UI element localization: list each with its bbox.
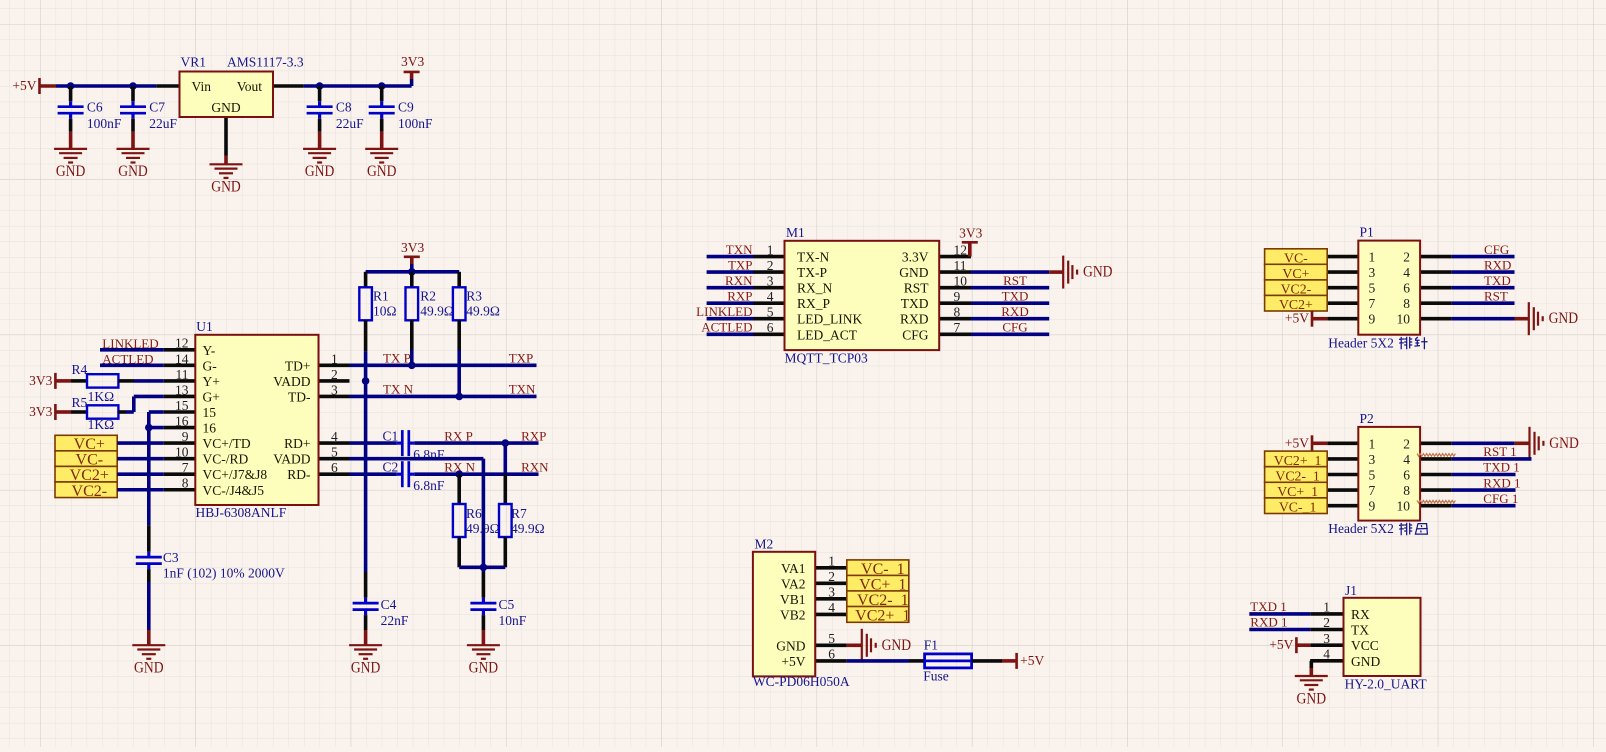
svg-text:6: 6 [331, 460, 338, 475]
svg-text:RXD 1: RXD 1 [1483, 475, 1520, 490]
svg-text:10: 10 [954, 273, 968, 288]
wire M2 +5V to fuse [847, 659, 909, 663]
svg-text:TXN: TXN [726, 242, 753, 257]
svg-text:RXN: RXN [521, 459, 549, 474]
wire [1452, 255, 1515, 259]
svg-text:7: 7 [1369, 483, 1376, 498]
svg-text:RX: RX [1351, 607, 1370, 622]
svg-text:RST: RST [1003, 273, 1027, 288]
svg-text:TXP: TXP [728, 257, 753, 272]
svg-text:3: 3 [767, 273, 774, 288]
svg-text:8: 8 [1403, 296, 1410, 311]
junction [408, 362, 416, 370]
power 3V3 output [410, 79, 414, 86]
svg-text:TX-P: TX-P [797, 265, 827, 280]
wire [707, 270, 754, 274]
svg-text:ACTLED: ACTLED [701, 320, 752, 335]
ground below C9 [380, 119, 384, 132]
svg-text:12: 12 [175, 336, 189, 351]
svg-text:11: 11 [954, 258, 967, 273]
svg-text:4: 4 [1323, 647, 1330, 662]
svg-text:GND: GND [118, 163, 148, 180]
junction [316, 82, 324, 90]
svg-text:49.9Ω: 49.9Ω [420, 304, 454, 319]
junction [502, 439, 510, 447]
ground below C4 [364, 615, 368, 630]
port VC2- [1265, 280, 1328, 296]
svg-text:VADD: VADD [273, 452, 311, 467]
svg-text:3: 3 [1369, 452, 1376, 467]
svg-text:TX P: TX P [383, 351, 411, 366]
svg-text:GND: GND [367, 163, 397, 180]
wire 3V3 rail [304, 84, 412, 88]
svg-text:P1: P1 [1360, 225, 1374, 240]
ground below C7 [131, 119, 135, 132]
module M2 WC-PD06H050A [815, 566, 847, 570]
svg-text:3: 3 [1323, 631, 1330, 646]
svg-text:14: 14 [175, 351, 189, 366]
svg-text:RXD 1: RXD 1 [1250, 614, 1287, 629]
svg-text:VC-/RD: VC-/RD [203, 452, 249, 467]
svg-text:6: 6 [828, 646, 835, 661]
svg-text:VC-_1: VC-_1 [1279, 500, 1317, 515]
connector J1 HY-2.0_UART [1310, 612, 1343, 616]
wire [971, 286, 1049, 290]
svg-text:VC+/J7&J8: VC+/J7&J8 [203, 467, 268, 482]
wire +5V rail [56, 84, 156, 88]
svg-text:AMS1117-3.3: AMS1117-3.3 [227, 55, 304, 70]
junction [480, 564, 488, 572]
svg-text:10: 10 [175, 445, 189, 460]
wire [1452, 270, 1515, 274]
capacitor C2 6.8nF [350, 472, 397, 476]
svg-text:GND: GND [134, 660, 164, 677]
svg-text:8: 8 [182, 476, 189, 491]
wire pin16 [149, 426, 164, 430]
svg-text:3: 3 [1369, 265, 1376, 280]
svg-text:RX P: RX P [444, 428, 473, 443]
svg-text:GND: GND [211, 179, 241, 196]
svg-text:C7: C7 [149, 100, 165, 115]
svg-text:4: 4 [828, 600, 835, 615]
resistor R3 49.9ohm [457, 272, 461, 288]
svg-text:GND: GND [469, 660, 499, 677]
port VC2+ [1265, 295, 1328, 311]
fuse F1 [909, 659, 925, 663]
svg-text:22uF: 22uF [336, 116, 364, 131]
power +5V input [38, 78, 41, 94]
svg-text:TX N: TX N [383, 382, 414, 397]
junction [408, 268, 416, 276]
svg-text:8: 8 [954, 304, 961, 319]
wire pin8 [117, 488, 164, 492]
svg-text:4: 4 [331, 429, 338, 444]
wire [707, 332, 754, 336]
svg-text:3: 3 [828, 584, 835, 599]
svg-text:C5: C5 [499, 597, 515, 612]
svg-text:5: 5 [1369, 281, 1376, 296]
wire VADD drop [350, 457, 484, 461]
svg-text:VC+_1: VC+_1 [1277, 484, 1318, 499]
svg-text:R4: R4 [72, 362, 88, 377]
capacitor C5 10nF [482, 567, 486, 572]
wire [707, 286, 754, 290]
wire [707, 255, 754, 259]
header P1 5X2 [1327, 255, 1358, 259]
svg-text:R6: R6 [466, 506, 482, 521]
wire R5 to pin13 [126, 410, 134, 414]
svg-text:GND: GND [56, 163, 86, 180]
svg-text:1KΩ: 1KΩ [88, 389, 115, 404]
svg-text:Vin: Vin [192, 79, 212, 94]
svg-text:GND: GND [351, 660, 381, 677]
svg-text:5: 5 [767, 304, 774, 319]
svg-text:TXD 1: TXD 1 [1483, 460, 1519, 475]
wire 3V3 rail to resistors [366, 270, 460, 274]
svg-text:GND: GND [1351, 654, 1380, 669]
wire [707, 301, 754, 305]
svg-text:5: 5 [331, 445, 338, 460]
svg-text:TD-: TD- [288, 389, 311, 404]
wire [1452, 457, 1532, 461]
svg-text:GND: GND [899, 265, 928, 280]
svg-text:C8: C8 [336, 100, 352, 115]
svg-text:VADD: VADD [273, 374, 311, 389]
svg-text:Vout: Vout [237, 79, 263, 94]
svg-text:1: 1 [767, 242, 774, 257]
svg-text:49.9Ω: 49.9Ω [466, 521, 500, 536]
ground at P1 pin10 [1529, 302, 1543, 335]
wire [971, 301, 1049, 305]
svg-text:2: 2 [1403, 250, 1410, 265]
svg-text:1: 1 [828, 553, 835, 568]
wire R3 to TX_N [457, 350, 461, 396]
svg-text:GND: GND [776, 638, 805, 653]
capacitor C9 100nF [380, 86, 384, 101]
svg-text:Fuse: Fuse [923, 669, 949, 684]
svg-text:R5: R5 [72, 395, 88, 410]
IC U1 HBJ-6308ANLF [164, 348, 196, 352]
port VC2+ [55, 466, 117, 482]
svg-text:1: 1 [1369, 250, 1376, 265]
svg-text:CFG: CFG [902, 327, 929, 342]
wire [971, 317, 1049, 321]
header P2 5X2 [1327, 441, 1358, 445]
svg-text:VC-/J4&J5: VC-/J4&J5 [203, 483, 265, 498]
svg-text:TXD 1: TXD 1 [1250, 599, 1286, 614]
wire [1249, 628, 1310, 632]
svg-text:6.8nF: 6.8nF [413, 478, 445, 493]
svg-text:Y+: Y+ [203, 374, 220, 389]
wire RXN [414, 472, 538, 476]
svg-text:TX: TX [1351, 623, 1369, 638]
svg-text:10: 10 [1397, 312, 1411, 327]
svg-text:Header 5X2: Header 5X2 [1328, 521, 1394, 536]
svg-text:9: 9 [1369, 312, 1376, 327]
svg-text:CFG: CFG [1002, 320, 1027, 335]
svg-text:RXP: RXP [727, 288, 752, 303]
svg-text:VC+/TD: VC+/TD [203, 436, 251, 451]
power +5V at J1 VCC [1295, 637, 1298, 653]
svg-text:2: 2 [767, 258, 774, 273]
power +5V right of fuse [1002, 659, 1017, 663]
wire P2 pin2 to GND [1452, 441, 1515, 445]
ground at M2 pin5 [847, 643, 862, 647]
erc marker pin4 [1417, 454, 1455, 457]
svg-text:7: 7 [182, 460, 189, 475]
svg-text:TX-N: TX-N [797, 250, 829, 265]
wire TXN [350, 395, 537, 399]
svg-text:MQTT_TCP03: MQTT_TCP03 [785, 350, 869, 365]
svg-text:+5V: +5V [1020, 653, 1044, 668]
wire [1452, 488, 1516, 492]
svg-text:RST: RST [904, 281, 930, 296]
svg-text:16: 16 [175, 413, 189, 428]
ground below C6 [69, 119, 73, 132]
wire [1452, 504, 1516, 508]
svg-text:LINKLED: LINKLED [696, 304, 752, 319]
svg-text:C6: C6 [87, 100, 103, 115]
svg-text:1: 1 [1369, 436, 1376, 451]
junction [455, 470, 463, 478]
wire [1249, 612, 1310, 616]
ground below C3 [147, 569, 151, 582]
wire TXP [350, 364, 537, 368]
svg-text:1nF (102) 10% 2000V: 1nF (102) 10% 2000V [163, 566, 285, 581]
svg-text:100nF: 100nF [87, 116, 122, 131]
svg-text:12: 12 [954, 242, 968, 257]
svg-text:RXD: RXD [1484, 257, 1511, 272]
wire pin7 [117, 472, 164, 476]
svg-text:VCC: VCC [1351, 638, 1379, 653]
svg-text:15: 15 [203, 405, 217, 420]
svg-text:Y-: Y- [203, 343, 216, 358]
svg-text:GND: GND [1083, 264, 1113, 281]
wire P1 pin10 to GND [1452, 317, 1515, 321]
svg-text:C1: C1 [383, 428, 399, 443]
svg-text:22nF: 22nF [381, 613, 409, 628]
svg-text:+5V: +5V [781, 654, 805, 669]
svg-text:G+: G+ [203, 389, 220, 404]
svg-text:2: 2 [331, 367, 338, 382]
svg-text:TXP: TXP [509, 351, 534, 366]
svg-text:HY-2.0_UART: HY-2.0_UART [1345, 676, 1428, 691]
svg-text:GND: GND [1549, 435, 1579, 452]
svg-text:+5V: +5V [1285, 311, 1309, 326]
svg-text:49.9Ω: 49.9Ω [466, 304, 500, 319]
svg-text:VC2-: VC2- [1281, 282, 1312, 297]
wire [971, 332, 1049, 336]
svg-text:R7: R7 [511, 506, 527, 521]
svg-text:M1: M1 [786, 225, 805, 240]
svg-text:VC2+_1: VC2+_1 [855, 607, 910, 624]
capacitor C3 1nF [147, 525, 151, 551]
svg-text:1KΩ: 1KΩ [88, 417, 115, 432]
wire M1 pin11 to GND [971, 270, 1049, 274]
svg-text:10nF: 10nF [499, 613, 527, 628]
svg-text:TXN: TXN [509, 382, 536, 397]
svg-text:9: 9 [1369, 499, 1376, 514]
wire pin10 [117, 457, 164, 461]
svg-text:13: 13 [175, 382, 189, 397]
wire pin9 [117, 441, 164, 445]
wire R2 to TX_P [410, 350, 414, 365]
svg-text:49.9Ω: 49.9Ω [511, 521, 545, 536]
power +5V at P2 pin1 [1311, 435, 1314, 451]
svg-text:GND: GND [1549, 310, 1579, 327]
svg-text:3V3: 3V3 [401, 240, 424, 255]
power 3V3 at R5 [54, 404, 57, 420]
wire [707, 317, 754, 321]
svg-text:P2: P2 [1360, 411, 1374, 426]
svg-text:M2: M2 [755, 536, 774, 551]
svg-text:RST: RST [1484, 288, 1508, 303]
svg-text:3V3: 3V3 [29, 404, 52, 419]
svg-text:TXD: TXD [901, 296, 929, 311]
port VC+ [55, 435, 117, 451]
svg-text:C3: C3 [163, 550, 179, 565]
resistor R7 49.9ohm [503, 443, 507, 474]
power 3V3 at R4 [54, 373, 57, 389]
junction [378, 82, 386, 90]
resistor R2 49.9ohm [410, 272, 414, 288]
capacitor C6 100nF [69, 86, 73, 101]
ground below C5 [482, 615, 486, 630]
svg-text:RST 1: RST 1 [1483, 444, 1516, 459]
svg-text:TXD: TXD [1002, 288, 1029, 303]
svg-text:R1: R1 [373, 289, 389, 304]
svg-text:TXD: TXD [1484, 273, 1511, 288]
wire termination rail [459, 565, 505, 569]
svg-text:11: 11 [176, 367, 189, 382]
power +5V at P1 pin9 [1311, 311, 1314, 327]
svg-text:VC2-: VC2- [72, 483, 108, 500]
port VC- [55, 451, 117, 467]
svg-text:RXP: RXP [521, 428, 546, 443]
wire pin12 [100, 348, 164, 352]
svg-text:1: 1 [1323, 600, 1330, 615]
svg-text:TD+: TD+ [285, 358, 311, 373]
svg-text:C2: C2 [383, 459, 399, 474]
svg-text:3V3: 3V3 [959, 225, 982, 240]
svg-text:VA1: VA1 [781, 561, 806, 576]
svg-text:RD+: RD+ [284, 436, 310, 451]
svg-text:3: 3 [331, 382, 338, 397]
ground below VR1 [224, 156, 228, 165]
svg-text:8: 8 [1403, 483, 1410, 498]
svg-text:2: 2 [1403, 436, 1410, 451]
svg-text:VB2: VB2 [780, 607, 806, 622]
svg-text:Header 5X2: Header 5X2 [1328, 335, 1394, 350]
svg-text:CFG 1: CFG 1 [1483, 491, 1518, 506]
svg-text:2: 2 [828, 569, 835, 584]
svg-text:VB1: VB1 [780, 592, 806, 607]
svg-text:VA2: VA2 [781, 576, 806, 591]
resistor R6 49.9ohm [457, 474, 461, 504]
svg-text:10: 10 [1397, 499, 1411, 514]
resistor R1 10ohm [364, 272, 368, 288]
svg-text:9: 9 [954, 289, 961, 304]
svg-text:22uF: 22uF [149, 116, 177, 131]
svg-text:6: 6 [767, 320, 774, 335]
svg-text:16: 16 [203, 421, 217, 436]
svg-text:J1: J1 [1345, 583, 1357, 598]
svg-text:5: 5 [828, 631, 835, 646]
svg-text:RXD: RXD [900, 312, 929, 327]
svg-text:R2: R2 [420, 289, 436, 304]
svg-text:100nF: 100nF [398, 116, 433, 131]
power 3V3 at M1 pin12 [968, 242, 972, 256]
svg-text:G-: G- [203, 358, 218, 373]
svg-text:VC2-_1: VC2-_1 [1275, 469, 1320, 484]
regulator VR1 AMS1117-3.3 [156, 84, 179, 88]
svg-text:1: 1 [331, 351, 338, 366]
svg-text:10Ω: 10Ω [373, 304, 397, 319]
svg-text:3V3: 3V3 [401, 54, 424, 69]
wire [1452, 286, 1515, 290]
wire R1 to C4 (VADD) [364, 351, 368, 572]
svg-text:C9: C9 [398, 100, 414, 115]
svg-text:3V3: 3V3 [29, 373, 52, 388]
junction [145, 424, 153, 432]
svg-text:RXN: RXN [725, 273, 753, 288]
svg-text:9: 9 [182, 429, 189, 444]
ground at P2 pin2 [1530, 427, 1544, 460]
capacitor C7 22uF [131, 86, 135, 101]
ground below C8 [318, 119, 322, 132]
svg-text:GND: GND [1297, 690, 1327, 707]
svg-text:LED_LINK: LED_LINK [797, 312, 862, 327]
capacitor C4 22nF [364, 598, 367, 604]
svg-text:CFG: CFG [1484, 242, 1509, 257]
svg-text:GND: GND [211, 100, 240, 115]
svg-text:3.3V: 3.3V [902, 250, 929, 265]
junction [129, 82, 137, 90]
svg-text:2: 2 [1323, 615, 1330, 630]
svg-text:F1: F1 [924, 637, 938, 652]
svg-text:15: 15 [175, 398, 189, 413]
port VC- [1265, 249, 1328, 265]
svg-text:RX_P: RX_P [797, 296, 830, 311]
module M1 MQTT_TCP03 [754, 255, 785, 259]
wire pin15 riser [149, 410, 164, 414]
svg-text:+5V: +5V [1285, 435, 1309, 450]
svg-text:7: 7 [1369, 296, 1376, 311]
capacitor C8 22uF [318, 86, 322, 101]
svg-text:6: 6 [1403, 468, 1410, 483]
svg-text:4: 4 [1403, 265, 1410, 280]
port VC2- [55, 482, 117, 498]
svg-text:7: 7 [954, 320, 961, 335]
wire RXP [414, 441, 538, 445]
svg-text:RXD: RXD [1001, 304, 1028, 319]
svg-text:WC-PD06H050A: WC-PD06H050A [753, 674, 850, 689]
ground at M1 pin11 [1063, 256, 1077, 289]
svg-text:4: 4 [767, 289, 774, 304]
wire pin11 [134, 379, 164, 383]
svg-text:VC+: VC+ [1282, 266, 1309, 281]
wire [1452, 473, 1516, 477]
svg-text:HBJ-6308ANLF: HBJ-6308ANLF [196, 505, 287, 520]
junction [455, 393, 463, 401]
svg-text:U1: U1 [196, 319, 213, 334]
svg-text:VC2+_1: VC2+_1 [1274, 453, 1322, 468]
svg-text:4: 4 [1403, 452, 1410, 467]
svg-text:GND: GND [305, 163, 335, 180]
junction [67, 82, 75, 90]
capacitor C1 6.8nF [350, 441, 397, 445]
svg-text:LED_ACT: LED_ACT [797, 327, 858, 342]
